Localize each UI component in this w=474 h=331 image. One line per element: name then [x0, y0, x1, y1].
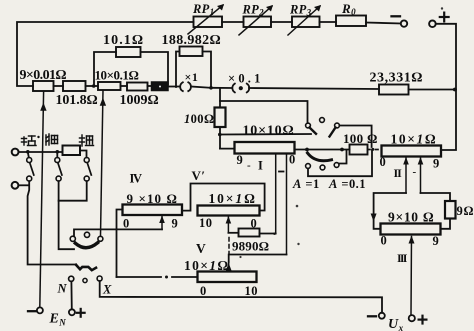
wire R0 to minus terminal — [366, 23, 401, 24]
wire c4 to dial II left riser — [308, 150, 372, 176]
button fine contacts and lever — [55, 152, 62, 181]
resistor 9890 — [232, 229, 269, 254]
node junction A left — [305, 148, 309, 152]
resistor RP2 — [239, 3, 273, 36]
svg-text:EN: EN — [49, 312, 67, 328]
svg-text:-: - — [413, 166, 417, 178]
terminal EN plus — [69, 309, 85, 317]
svg-text:0: 0 — [381, 234, 388, 248]
terminal EN minus — [28, 307, 43, 313]
wire G rail — [19, 151, 63, 153]
svg-text:9Ω: 9Ω — [457, 204, 474, 218]
wire coarse column merge — [59, 181, 87, 201]
wire RP2-RP3 — [271, 21, 292, 23]
dial V resistor 10x1 — [184, 258, 258, 298]
terminal battery minus — [392, 16, 408, 27]
svg-text:10×1Ω: 10×1Ω — [184, 258, 230, 273]
svg-text:10: 10 — [245, 284, 258, 298]
switch A lever c1 — [310, 128, 317, 134]
switch A contact c5 — [320, 165, 325, 170]
wire RP1-RP2 — [222, 21, 244, 23]
svg-text:9 ×10 Ω: 9 ×10 Ω — [127, 191, 179, 206]
svg-text:×1: ×1 — [185, 70, 199, 84]
resistor dial 10x0.1 — [95, 68, 139, 91]
svg-text:188.982Ω: 188.982Ω — [162, 33, 222, 48]
wire branch to A contact c1 — [220, 101, 308, 123]
resistor 100 protection vertical — [184, 88, 226, 149]
wire x0.1 to 23.331 — [249, 88, 379, 89]
dial IV wiper to G selector — [74, 216, 165, 237]
wire plus rail to dial II right end — [436, 24, 456, 150]
wire top-left loop — [17, 22, 194, 86]
wire short column down to NX feed — [28, 181, 76, 264]
wire rail to coarse stub — [80, 151, 87, 158]
resistor R0 — [336, 1, 366, 26]
node rail-short — [26, 150, 30, 154]
svg-text:Ux: Ux — [388, 317, 404, 331]
svg-text:A =1: A =1 — [292, 177, 320, 191]
svg-text:A =0.1: A =0.1 — [328, 177, 366, 191]
dial II wiper right — [418, 157, 424, 193]
G selector contact 1 — [70, 236, 75, 241]
svg-text:RP2: RP2 — [242, 3, 265, 18]
switch NX blade — [76, 265, 96, 270]
svg-text:V′: V′ — [192, 168, 206, 183]
svg-text:R0: R0 — [341, 1, 356, 17]
dial III resistor 9x10 — [381, 210, 441, 266]
switch A contact c4 — [306, 164, 311, 169]
node junction left — [92, 84, 96, 88]
button coarse contacts and lever — [84, 158, 91, 182]
G selector contact 3 — [98, 236, 103, 241]
wire x1 to node — [192, 87, 212, 88]
node junction 500 bottom — [218, 133, 222, 137]
dial V-prime wiper to 9890 — [226, 216, 239, 233]
wire dial V left lead with link dot — [117, 276, 198, 279]
wire dial I to A switch — [295, 149, 350, 151]
svg-text:IV: IV — [130, 172, 142, 186]
svg-text:RP1: RP1 — [192, 2, 214, 17]
svg-text:III: III — [397, 251, 408, 265]
node junction rail — [453, 88, 457, 92]
dashed gang link V-prime to V — [228, 238, 230, 255]
terminal G lower — [12, 182, 19, 189]
wire G lower to short column — [18, 184, 29, 186]
wire 1009 to black box — [148, 85, 152, 87]
terminal G upper — [12, 149, 19, 156]
svg-text:10×10Ω: 10×10Ω — [243, 124, 295, 139]
wire black box to x1 contact — [168, 86, 180, 88]
wire 23.331 to right rail — [409, 89, 457, 91]
node rail-fine — [56, 150, 60, 154]
wire dial II left wiper to dial III left — [371, 193, 406, 229]
svg-text:9: 9 — [433, 234, 440, 248]
dial I wiper 1 — [275, 154, 277, 234]
resistor dial 9x0.01 — [20, 68, 67, 91]
node junction A right — [340, 148, 344, 152]
dial I resistor 10x10 — [235, 124, 296, 173]
resistor black box — [152, 82, 169, 91]
svg-text:V: V — [196, 241, 206, 256]
svg-text:0: 0 — [380, 155, 387, 169]
wire dial IV left lead down — [117, 210, 123, 278]
dash between dial I wipers — [279, 171, 284, 173]
svg-text:10: 10 — [199, 216, 212, 230]
wire X to Ux minus — [100, 281, 382, 313]
wire node to x0.1 — [211, 87, 232, 89]
svg-text:×0.1: ×0.1 — [228, 72, 264, 86]
wire to dial I left — [220, 148, 235, 150]
wiper arrow 9x0.01 to EN minus — [40, 92, 47, 308]
wire dial IV right to V-prime frame — [182, 184, 265, 211]
G selector blade arc — [75, 243, 97, 248]
terminal Ux minus — [368, 313, 385, 319]
svg-text:9: 9 — [433, 157, 440, 171]
dashed link 100 to dial II — [369, 148, 379, 151]
svg-text:23,331Ω: 23,331Ω — [370, 71, 424, 86]
resistor 100 shunt — [343, 131, 378, 155]
svg-text:101.8Ω: 101.8Ω — [56, 93, 98, 108]
label short — [22, 136, 37, 146]
contact x1 — [180, 70, 198, 91]
svg-text:0: 0 — [200, 284, 207, 298]
svg-text:X: X — [102, 283, 112, 297]
dial I wiper 2 — [286, 154, 288, 255]
svg-text:10×1Ω: 10×1Ω — [209, 191, 257, 206]
svg-text:0: 0 — [123, 217, 130, 231]
wire 9890 to dial I wiper1 — [260, 233, 275, 236]
svg-text:9×10 Ω: 9×10 Ω — [388, 210, 434, 225]
svg-text:I: I — [258, 159, 263, 173]
svg-text:10×0.1Ω: 10×0.1Ω — [95, 68, 139, 83]
resistor coarse protection — [63, 146, 81, 156]
wire fine column down to G arc — [59, 181, 74, 249]
svg-text:II: II — [394, 166, 403, 180]
wire N to EN plus — [70, 281, 72, 309]
wire RP3-R0 — [320, 21, 337, 23]
wire 101.8 to 10x0.1 — [86, 85, 99, 87]
switch NX contact N — [69, 276, 74, 281]
wire 10x0.1 to 1009 — [121, 85, 128, 87]
switch A contact c1 — [306, 123, 311, 128]
switch A contact c6 — [334, 163, 339, 168]
terminal Ux plus — [409, 315, 427, 323]
svg-text:9: 9 — [172, 217, 179, 231]
dial V wiper arrow — [226, 262, 232, 272]
wire 9x0.01 to 101.8 — [54, 85, 64, 87]
dial II wiper left — [403, 157, 409, 193]
dial IV resistor 9x10 — [123, 191, 183, 231]
wire c6 hook to main wire — [339, 150, 347, 164]
resistor 9 ohm — [445, 201, 474, 219]
resistor RP3 — [288, 3, 321, 36]
svg-text:RP3: RP3 — [289, 3, 312, 18]
resistor 10.1 bypass — [94, 33, 168, 87]
switch A blade arc — [308, 153, 332, 161]
contact x0.1 closed — [228, 72, 264, 93]
svg-text:100Ω: 100Ω — [184, 112, 214, 126]
svg-text:N: N — [57, 282, 68, 296]
resistor 188.982 bypass — [162, 33, 222, 88]
speck dots — [239, 7, 443, 258]
svg-text:9×0.01Ω: 9×0.01Ω — [20, 68, 67, 83]
wire dial II right wiper through 9 ohm — [421, 193, 451, 201]
wiper arrow 10x0.1 down to G selector — [100, 91, 106, 236]
terminal battery plus — [429, 13, 449, 28]
switch NX pivot — [83, 278, 87, 282]
G selector contact 2 — [84, 232, 89, 237]
wire 9 ohm to dial III right — [441, 219, 451, 229]
label coarse — [80, 135, 94, 146]
label fine — [46, 134, 58, 145]
svg-text:1009Ω: 1009Ω — [120, 93, 159, 108]
resistor 1009 — [120, 83, 159, 109]
resistor 101.8 — [56, 81, 98, 108]
wire dial I wiper2 to dial V wiper — [229, 255, 287, 263]
svg-text:9: 9 — [237, 153, 244, 167]
svg-text:100 Ω: 100 Ω — [343, 131, 378, 146]
wire branch to A lever — [220, 133, 311, 136]
resistor 23.331 — [370, 71, 424, 95]
node junction 211 — [209, 86, 213, 90]
button short contacts and lever — [27, 152, 34, 181]
switch A contact c3 — [335, 123, 340, 128]
resistor RP1 — [188, 2, 224, 34]
dial V-prime resistor 10x1 — [198, 191, 260, 231]
wire c3 to dial II left — [340, 126, 372, 148]
node dot between labels — [37, 136, 39, 138]
svg-text:0: 0 — [289, 153, 296, 167]
svg-text:10.1Ω: 10.1Ω — [103, 33, 144, 48]
dial III wiper to Ux plus — [409, 236, 415, 315]
svg-text:10×1Ω: 10×1Ω — [391, 132, 438, 147]
svg-text:9890Ω: 9890Ω — [232, 239, 269, 254]
dial II resistor 10x1 — [380, 132, 442, 181]
svg-text:-: - — [247, 160, 251, 172]
switch NX contact X — [97, 276, 102, 281]
switch A contact c2 — [320, 118, 325, 123]
switch A lever c3 — [330, 128, 336, 137]
